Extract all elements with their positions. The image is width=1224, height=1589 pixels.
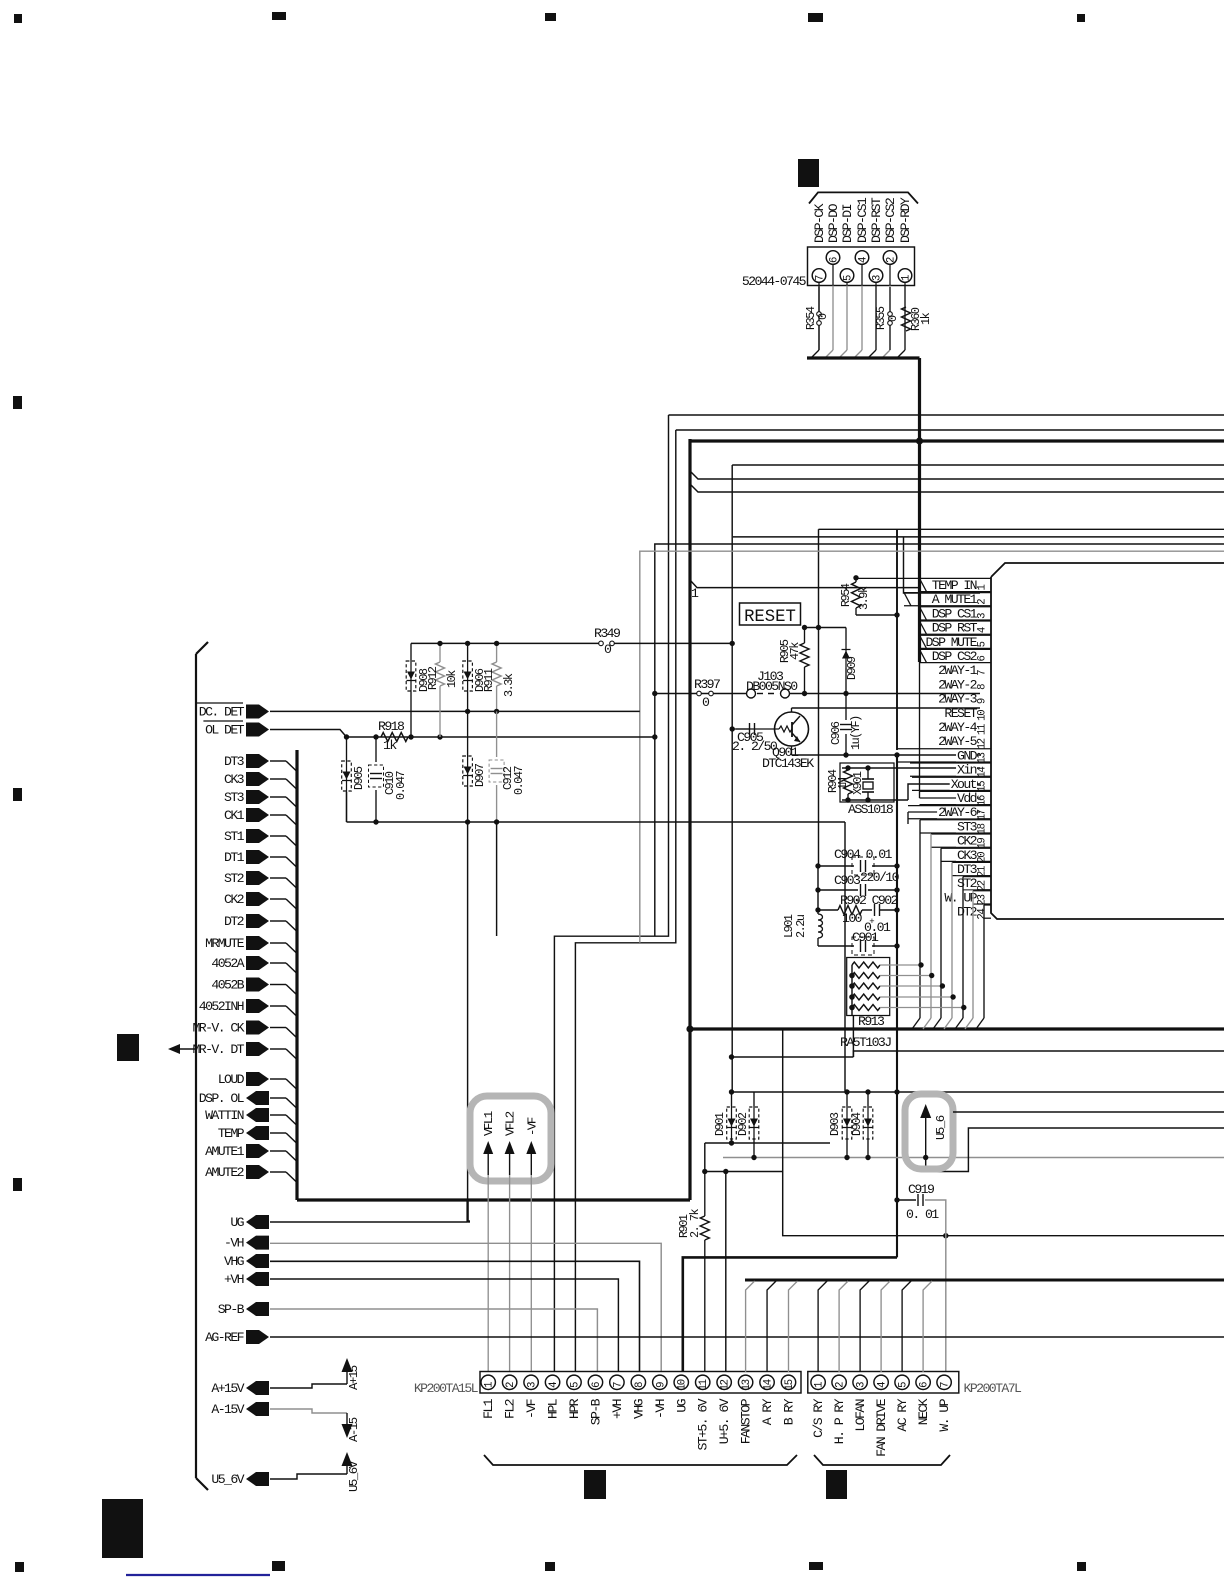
svg-text:D907: D907: [473, 763, 487, 787]
svg-text:D901: D901: [713, 1112, 727, 1136]
IC pin 2 A MUTE1: [904, 592, 991, 594]
wire Xout rail y800: [842, 799, 908, 801]
resistor R349 0: [599, 641, 604, 646]
svg-text:UG: UG: [230, 1215, 244, 1230]
black tab KP200TA15L: [584, 1470, 606, 1499]
connector KP200TA7L body: [808, 1372, 959, 1394]
svg-text:15: 15: [977, 781, 989, 792]
GND bus continues x897: [896, 755, 898, 1257]
wire rip y479 off thick bus: [690, 471, 1224, 479]
wire CK3 to bus: [270, 778, 286, 780]
wire emitter GND net y755: [791, 746, 793, 755]
junction R912 top: [437, 641, 442, 646]
wire AMUTE2 to bus: [270, 1171, 286, 1173]
connector KP200TA15L body: [480, 1372, 801, 1394]
svg-text:R911: R911: [482, 668, 496, 692]
wire DSP pin 5 to bus: [846, 286, 848, 351]
svg-text:-VF: -VF: [525, 1117, 539, 1136]
svg-text:C903: C903: [834, 873, 861, 888]
svg-text:16: 16: [977, 795, 989, 806]
registration mark bottom 4: [809, 1562, 823, 1570]
svg-text:-VF: -VF: [524, 1399, 539, 1419]
IC pin 3 DSP CS1: [920, 606, 992, 608]
svg-text:DT1: DT1: [224, 850, 245, 865]
IC microcontroller body: [991, 563, 1224, 577]
svg-text:14: 14: [977, 767, 989, 778]
wire y1092 net: [732, 1091, 1224, 1093]
inductor L901 2.2u: [817, 910, 819, 914]
svg-text:A RY: A RY: [760, 1398, 775, 1425]
thick relay bus y1280: [745, 1279, 1224, 1282]
junction R905 bottom: [802, 691, 807, 696]
capacitor C919 0.01: [894, 1197, 899, 1202]
diode D904: [867, 1092, 869, 1106]
wire DSP. OL to bus: [270, 1097, 286, 1099]
svg-text:13: 13: [977, 752, 989, 763]
junction D906 top: [465, 641, 470, 646]
svg-text:C901: C901: [852, 930, 879, 945]
gray net y1157: [723, 1157, 1224, 1159]
svg-text:C906: C906: [829, 721, 843, 745]
svg-text:AC RY: AC RY: [895, 1398, 910, 1431]
svg-text:ST1: ST1: [224, 829, 245, 844]
junction D902 bottom: [751, 1155, 756, 1160]
svg-text:DSP RST: DSP RST: [932, 621, 978, 636]
diode D905: [346, 737, 348, 760]
svg-text:-VH: -VH: [653, 1399, 668, 1419]
connector KP200TA7L pin 6 NECK: [916, 1375, 930, 1389]
wire net A vertical x668: [554, 415, 668, 1372]
wire AG-REF net: [270, 1336, 1224, 1338]
svg-text:Vdd: Vdd: [957, 791, 977, 806]
junction R905 top: [802, 625, 807, 630]
wire relay bus drop: [818, 1281, 827, 1372]
svg-text:+VH: +VH: [224, 1272, 244, 1287]
junction R901 top: [702, 1169, 707, 1174]
connector KP200TA15L pin 3 -VF: [524, 1375, 538, 1389]
wire net F y551: [640, 551, 1224, 943]
IC pin 24 DT2: [984, 904, 991, 906]
bus box bottom wire: [297, 1198, 690, 1201]
svg-text:DSP-DI: DSP-DI: [840, 204, 855, 243]
junction x845 y1092: [844, 1089, 849, 1094]
IC pin 21 DT3: [952, 861, 991, 863]
svg-text:DSP CS1: DSP CS1: [932, 606, 978, 621]
connector KP200TA7L pin 4 FAN DRIVE: [874, 1375, 888, 1389]
IC pin 1 TEMP IN: [920, 577, 992, 579]
wire relay bus drop: [881, 1281, 890, 1372]
svg-text:21: 21: [977, 866, 989, 877]
resistor R354 0: [818, 287, 820, 312]
wire relay bus drop: [902, 1281, 911, 1372]
connector KP200TA15L pin 9 -VH: [653, 1375, 667, 1389]
svg-text:KP200TA15L: KP200TA15L: [414, 1381, 479, 1396]
wire DSP pin 6 to bus: [832, 286, 834, 351]
svg-text:AG-REF: AG-REF: [205, 1330, 244, 1345]
connector KP200TA15L pin 15 B RY: [781, 1375, 795, 1389]
svg-text:DSP-DO: DSP-DO: [826, 203, 841, 243]
svg-text:W. UP: W. UP: [937, 1398, 952, 1431]
capacitor C901 0.01: [818, 945, 854, 947]
svg-text:FL1: FL1: [481, 1398, 496, 1419]
IC pin 20 CK3: [941, 847, 991, 849]
thick GND bus y1029 to right edge: [688, 1027, 1224, 1030]
bracket under KP200TA15L: [484, 1455, 797, 1465]
svg-text:R918: R918: [378, 719, 405, 734]
U5_6 arrow: [925, 1112, 927, 1158]
black tab KP200TA7L: [826, 1470, 847, 1499]
wire -VF to connector: [530, 1175, 532, 1372]
wire DT3 to bus: [270, 760, 286, 762]
wire net y529: [819, 528, 1224, 530]
resistor R355 0: [889, 287, 891, 312]
IC pin 23 W. UP: [973, 890, 991, 892]
wire TEMP IN flag extension: [856, 577, 920, 579]
wire net D y536: [733, 536, 1224, 538]
resistor R912 10k: [439, 643, 441, 662]
wire R349 net y643: [411, 642, 599, 644]
svg-text:DB005NS0: DB005NS0: [746, 679, 798, 694]
svg-text:R349: R349: [594, 626, 620, 641]
connector 52044-0745 body: [808, 247, 915, 286]
junction thick vertical / GND bus: [686, 1025, 693, 1032]
wire IC pin 19 drop: [930, 834, 932, 1018]
connector KP200TA15L pin 6 SP-B: [588, 1375, 602, 1389]
black tab above DSP connector: [798, 159, 819, 187]
svg-text:VHG: VHG: [224, 1254, 245, 1269]
svg-text:MR-V. CK: MR-V. CK: [192, 1021, 244, 1036]
wire net B y430: [676, 429, 1224, 431]
svg-text:DT2: DT2: [224, 914, 244, 929]
wire U5_6V stub: [270, 1474, 347, 1479]
wire y627 node: [805, 627, 847, 629]
svg-text:DSP-RDY: DSP-RDY: [898, 197, 913, 243]
svg-text:TEMP: TEMP: [218, 1126, 245, 1141]
svg-text:D903: D903: [828, 1112, 842, 1136]
junction D905 top: [344, 734, 349, 739]
junction D907 bottom: [465, 819, 470, 824]
wire relay bus drop: [746, 1281, 755, 1372]
wire VFL1 to connector: [487, 1175, 489, 1372]
svg-text:MRMUTE: MRMUTE: [205, 936, 245, 951]
svg-text:D909: D909: [845, 656, 859, 680]
connector KP200TA15L pin 7 +VH: [610, 1375, 624, 1389]
registration mark top 3: [545, 13, 556, 21]
IC pin 17 2WAY-6: [908, 805, 991, 807]
wire DSP pin 4 to bus: [861, 286, 863, 351]
wire relay bus drop: [923, 1281, 932, 1372]
svg-text:C/S RY: C/S RY: [811, 1398, 826, 1438]
svg-text:DTC143EK: DTC143EK: [762, 756, 814, 771]
junction R912 bottom: [437, 734, 442, 739]
capacitor C906 1u(YF): [845, 694, 847, 721]
thick UG riser stub: [466, 1199, 468, 1222]
external arrow MR-V. DT out: [176, 1048, 196, 1050]
connector KP200TA15L pin 1 FL1: [481, 1375, 495, 1389]
transistor Q901 DTC143EK: [775, 712, 809, 746]
svg-text:VHG: VHG: [631, 1398, 646, 1419]
svg-text:ST3: ST3: [957, 819, 978, 834]
connector KP200TA15L pin 5 HPR: [567, 1375, 581, 1389]
svg-text:DSP-CS1: DSP-CS1: [855, 197, 870, 243]
svg-text:A MUTE1: A MUTE1: [932, 592, 978, 607]
wire net C y465: [732, 464, 1224, 466]
svg-text:1k: 1k: [383, 738, 397, 753]
wire +VH net: [270, 1279, 618, 1372]
svg-text:HPL: HPL: [546, 1398, 561, 1419]
junction OL.DET/x654: [652, 734, 657, 739]
resistor R911 3.3k: [496, 643, 498, 662]
svg-text:0. 01: 0. 01: [906, 1207, 939, 1222]
svg-text:LOUD: LOUD: [218, 1072, 245, 1087]
svg-text:Xout: Xout: [951, 777, 977, 792]
connector KP200TA7L pin 1 C/S RY: [811, 1375, 825, 1389]
wire net B vertical x676: [575, 430, 675, 1372]
svg-text:DC. DET: DC. DET: [199, 705, 245, 720]
wire VHG net: [270, 1261, 640, 1372]
IC pin 6 DSP CS2: [920, 648, 992, 650]
connector KP200TA15L pin 8 VHG: [631, 1375, 645, 1389]
VFL arrow VFL2: [509, 1152, 511, 1175]
wire Vdd feed x919: [919, 662, 921, 798]
wire SP-B net: [270, 1309, 597, 1372]
connector KP200TA15L pin 10 UG: [674, 1375, 688, 1389]
svg-text:DSP-RST: DSP-RST: [869, 197, 884, 243]
svg-text:4052INH: 4052INH: [199, 999, 244, 1014]
connector 52044-0745 shield bracket: [809, 192, 918, 203]
diode D901: [731, 1092, 733, 1106]
junction x897 y615: [894, 612, 899, 617]
svg-text:2WAY-3: 2WAY-3: [938, 692, 978, 707]
svg-text:X901: X901: [851, 771, 865, 795]
svg-text:4052A: 4052A: [211, 956, 244, 971]
wire IC pin 20 drop: [940, 848, 942, 1018]
blue footer rule: [126, 1574, 270, 1576]
svg-text:ST+5. 6V: ST+5. 6V: [696, 1398, 711, 1450]
svg-text:1M: 1M: [836, 777, 850, 790]
registration mark top 4: [808, 13, 823, 22]
diode D907: [467, 711, 469, 755]
svg-text:GND: GND: [957, 748, 978, 763]
svg-text:WATTIN: WATTIN: [205, 1108, 244, 1123]
VFL arrow -VF: [530, 1152, 532, 1175]
diode D908: [410, 643, 412, 660]
IC pin 22 ST2: [963, 876, 991, 878]
svg-text:100: 100: [842, 911, 863, 926]
junction GND x897: [894, 752, 899, 757]
wire filter rail x818: [818, 529, 820, 866]
svg-text:AMUTE1: AMUTE1: [205, 1144, 245, 1159]
wire J103 to 2WAY-3 pin: [790, 693, 981, 695]
svg-text:OL DET: OL DET: [205, 723, 245, 738]
junction R349/x732: [730, 641, 735, 646]
svg-text:CK2: CK2: [224, 892, 244, 907]
svg-text:CK3: CK3: [957, 848, 978, 863]
thick DSP bus under connector: [807, 356, 920, 359]
wire DSP pin 7 to bus: [818, 286, 820, 351]
svg-text:ST2: ST2: [957, 876, 977, 891]
crystal X901: [867, 770, 869, 779]
svg-text:A-15: A-15: [347, 1417, 361, 1442]
wire 4052INH to bus: [270, 1005, 286, 1007]
registration mark bottom 1: [15, 1562, 24, 1572]
resistor R902 100 + capacitor C902: [818, 909, 838, 911]
svg-text:DSP CS2: DSP CS2: [932, 649, 977, 664]
svg-text:SP-B: SP-B: [588, 1398, 603, 1425]
resistor R360 1k: [902, 307, 911, 331]
thick bus wire y443 to right edge: [690, 439, 1224, 442]
svg-text:12: 12: [977, 738, 989, 749]
junction x731 y1092: [729, 1089, 734, 1094]
wire rip y492 off thick bus: [690, 484, 1224, 492]
svg-text:LOFAN: LOFAN: [853, 1399, 868, 1431]
svg-text:CK3: CK3: [224, 772, 245, 787]
wire CK1 to bus: [270, 814, 286, 816]
capacitor C903 220/10: [818, 889, 858, 891]
svg-text:2. 2/50: 2. 2/50: [732, 739, 778, 754]
wire UG net to bus box: [270, 1221, 468, 1223]
wire U5_6 net y1112: [953, 1111, 1224, 1113]
svg-text:17: 17: [977, 809, 989, 820]
IC pin 13 GND: [897, 748, 991, 750]
svg-text:KP200TA7L: KP200TA7L: [964, 1381, 1023, 1396]
wire net C vertical x732: [731, 465, 733, 1092]
wire relay bus drop: [860, 1281, 869, 1372]
wire DSP pin 3 to bus: [875, 286, 877, 351]
svg-text:DSP-CK: DSP-CK: [812, 203, 827, 243]
connector KP200TA7L pin 2 H. P RY: [832, 1375, 846, 1389]
svg-text:DT3: DT3: [224, 754, 245, 769]
left connector bracket: [195, 654, 197, 1478]
wire D903/D904 feed x845: [844, 822, 846, 1092]
wire x897 rail: [896, 866, 898, 946]
junction D904 bottom: [865, 1155, 870, 1160]
svg-text:14: 14: [763, 1379, 775, 1390]
svg-text:VFL1: VFL1: [482, 1111, 496, 1136]
page tab black square bottom-left: [102, 1499, 143, 1558]
IC pin 16 Vdd: [920, 790, 992, 792]
registration mark bottom 5: [1077, 1562, 1086, 1571]
connector KP200TA15L pin 12 U+5. 6V: [717, 1375, 731, 1389]
wire Xout riser: [908, 784, 980, 800]
svg-text:15: 15: [784, 1379, 796, 1390]
junction R911 bottom: [494, 709, 499, 714]
svg-text:2WAY-6: 2WAY-6: [938, 805, 978, 820]
wire U5_6 elbow: [926, 1128, 1224, 1172]
svg-text:TEMP IN: TEMP IN: [932, 578, 977, 593]
wire ST2 to bus: [270, 877, 286, 879]
svg-text:R912: R912: [426, 666, 440, 690]
svg-text:FL2: FL2: [503, 1399, 518, 1419]
wire net A y415: [669, 414, 1224, 416]
registration mark left 3: [13, 1178, 22, 1191]
wire x497 stub: [496, 822, 498, 936]
svg-text:VFL2: VFL2: [504, 1111, 518, 1136]
wire A+15V stub: [270, 1384, 347, 1388]
svg-text:23: 23: [977, 894, 989, 905]
connector KP200TA15L pin 13 FANSTOP: [738, 1375, 752, 1389]
svg-text:DSP-CS2: DSP-CS2: [883, 198, 898, 243]
svg-text:4052B: 4052B: [211, 978, 244, 993]
wire 4052B to bus: [270, 984, 286, 986]
net label 1: [690, 580, 920, 588]
wire D901 bottom to R901: [705, 1142, 830, 1144]
registration mark bottom 2: [272, 1561, 285, 1571]
wire 4052A to bus: [270, 962, 286, 964]
wire A-15V stub: [270, 1409, 347, 1413]
wire UG riser x468: [467, 822, 469, 1222]
crystal X901 block ASS1018: [840, 763, 894, 802]
IC pin 5 DSP MUTE: [920, 634, 992, 636]
svg-text:22: 22: [977, 880, 989, 891]
wire J103 net y694: [655, 693, 746, 695]
wire relay bus drop: [839, 1281, 848, 1372]
capacitor C912 0.047: [496, 711, 498, 757]
svg-text:R913: R913: [858, 1014, 885, 1029]
wire ST1 to bus: [270, 835, 286, 837]
capacitor C904 0.01: [818, 865, 854, 867]
svg-text:A-15V: A-15V: [211, 1402, 244, 1417]
power arrow U5_6V: [346, 1460, 348, 1474]
resistor R954 3.9k: [855, 578, 857, 582]
wire ground net y822: [347, 821, 846, 823]
wire net E y544: [655, 544, 1224, 936]
svg-text:R397: R397: [694, 677, 720, 692]
diode D906: [467, 643, 469, 660]
wire DSP pin 2 to bus: [889, 286, 891, 351]
connector KP200TA15L pin 4 HPL: [545, 1375, 559, 1389]
svg-text:220/10: 220/10: [860, 870, 900, 885]
svg-text:10k: 10k: [445, 670, 459, 688]
wire OL.DET entry: [270, 730, 347, 738]
resistor R901 2.7k: [704, 1172, 706, 1217]
bracket under KP200TA7L: [814, 1455, 950, 1465]
IC pin 14 Xin: [910, 762, 991, 764]
svg-text:0.047: 0.047: [394, 770, 408, 800]
registration mark top 1: [14, 14, 22, 23]
svg-text:A+15V: A+15V: [211, 1381, 244, 1396]
svg-text:12: 12: [720, 1379, 732, 1390]
wire DSP pin 1 to bus: [904, 286, 906, 351]
svg-text:1u(YF): 1u(YF): [849, 716, 863, 750]
wire IC pin 18 drop: [919, 820, 921, 1018]
connector KP200TA15L pin 14 A RY: [760, 1375, 774, 1389]
resistor R397 0: [697, 691, 702, 696]
wire relay bus drop: [789, 1281, 798, 1372]
svg-text:20: 20: [977, 852, 989, 863]
svg-text:ST3: ST3: [224, 790, 245, 805]
wire MR-V. CK to bus: [270, 1027, 286, 1029]
svg-text:U5_6V: U5_6V: [211, 1472, 244, 1487]
svg-text:B RY: B RY: [782, 1398, 797, 1425]
wire net y1171: [705, 1171, 783, 1173]
diode D909: [845, 628, 847, 641]
svg-text:A+15: A+15: [347, 1365, 361, 1390]
svg-text:H. P RY: H. P RY: [832, 1398, 847, 1444]
wire RESET collector net y708: [792, 707, 981, 709]
junction C906 bottom: [843, 752, 848, 757]
wire DC.DET net y711: [270, 710, 640, 712]
wire net y1236 riser x782: [783, 1029, 1224, 1236]
bus box right vertical wire: [688, 439, 691, 1029]
wire LOUD to bus: [270, 1078, 286, 1080]
wire AMUTE1 to bus: [270, 1150, 286, 1152]
svg-text:2WAY-2: 2WAY-2: [938, 677, 977, 692]
svg-text:FANSTOP: FANSTOP: [739, 1398, 754, 1444]
svg-text:R954: R954: [839, 583, 853, 607]
wire y1051-1057 net: [732, 1056, 854, 1058]
svg-text:ASS1018: ASS1018: [848, 802, 894, 817]
